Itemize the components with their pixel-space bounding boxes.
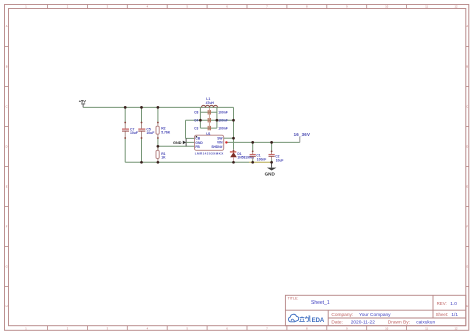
svg-text:1.0: 1.0 [450,301,457,307]
svg-text:E: E [466,185,468,189]
cap bank chain line [208,108,210,130]
diode D1 [230,150,237,163]
junction dots output row [251,141,254,144]
junction dots top rail [124,106,127,109]
svg-text:GND: GND [265,172,276,177]
svg-text:10uF: 10uF [130,131,138,135]
capacitor C5 [138,123,145,139]
wire C4 row [186,119,234,121]
capacitor C4 [208,118,210,122]
svg-text:Your Company: Your Company [359,312,391,318]
ground symbol [265,162,277,176]
svg-text:A: A [466,24,468,28]
svg-text:2020-11-22: 2020-11-22 [351,320,376,326]
svg-text:B: B [466,65,468,69]
svg-text:47uH: 47uH [206,101,215,105]
unconnected pin dot VIN [225,141,227,143]
junction dots bottom rail [140,161,143,164]
svg-text:H: H [6,304,8,308]
wire C5 column [141,107,143,122]
regulator U1 body [195,135,224,150]
wire CB riser [185,120,187,138]
power flag +5V [79,99,87,108]
frame ruler ticks left [5,47,9,287]
svg-text:Sheet_1: Sheet_1 [311,300,330,306]
pin dots R2 [157,122,159,124]
svg-text:1/1: 1/1 [451,312,458,318]
svg-text:GND: GND [173,141,182,145]
svg-text:5.76K: 5.76K [161,131,171,135]
net port GND [173,138,195,146]
svg-text:H: H [466,304,468,308]
pin dot D1 [233,150,235,152]
wire C2 column [271,142,273,151]
junction dot FB divider [157,145,160,148]
resistor R1 [157,146,159,150]
svg-text:+5V: +5V [79,99,87,104]
wire R2/R1 column [157,107,159,122]
wire main right riser [233,107,235,149]
U1 pin names [195,136,223,148]
svg-text:C: C [6,105,8,109]
svg-text:16_36V: 16_36V [294,132,310,137]
net label 16_36V [294,132,310,142]
wire bottom rail yellow segment [249,161,272,163]
svg-text:100nF: 100nF [218,111,228,115]
svg-text:10uF: 10uF [146,131,154,135]
svg-text:100nF: 100nF [257,157,267,161]
svg-text:TITLE:: TITLE: [288,296,299,300]
wire main top rail [83,106,233,108]
wire cap bank left riser [199,107,201,128]
frame ruler ticks right [466,47,469,287]
capacitor C7 [122,123,129,139]
wire bottom rail [125,161,249,163]
EasyEDA logo [289,314,325,324]
svg-text:U1: U1 [206,132,210,136]
capacitor C3 [208,126,210,130]
svg-text:B: B [6,65,8,69]
svg-text:EDA: EDA [312,318,325,324]
svg-text:Sheet:: Sheet: [436,312,449,317]
svg-text:Drawn By:: Drawn By: [388,320,410,326]
wire cap bank right riser [216,107,218,128]
U1 pin1 dot [196,136,198,138]
frame ruler ticks top [48,5,407,9]
svg-text:C8: C8 [194,111,198,115]
svg-text:100nF: 100nF [218,127,228,131]
svg-text:G: G [466,265,468,269]
resistor R2 [157,123,159,127]
capacitor C8 [208,110,210,114]
svg-text:LMR14203XMKX: LMR14203XMKX [195,151,225,155]
svg-text:caixukun: caixukun [416,320,435,326]
svg-text:E: E [6,185,8,189]
svg-text:C: C [466,105,468,109]
svg-text:100nF: 100nF [218,119,228,123]
wire C3 row [200,127,217,129]
svg-text:SHDN#: SHDN# [211,145,222,149]
wire SW pin [224,137,234,139]
svg-text:Date:: Date: [331,320,342,326]
pin dots C7 [124,122,126,124]
svg-text:10uF: 10uF [276,158,284,162]
svg-text:REV:: REV: [437,301,447,306]
svg-text:FB: FB [195,145,200,149]
svg-text:D: D [6,145,8,149]
inductor L1 [202,105,218,107]
svg-text:G: G [6,265,8,269]
svg-text:1K: 1K [161,156,166,160]
wire C8 row [200,111,217,113]
svg-text:Company:: Company: [331,312,353,318]
wire C1 column [252,142,254,151]
junction dot SW row [232,137,235,140]
wire C7 column [124,107,126,122]
junction dots C4 row [199,119,202,122]
svg-text:C3: C3 [194,127,198,131]
svg-text:C4: C4 [194,119,198,123]
frame ruler ticks bottom [48,326,407,331]
wire VIN/output row [227,141,300,143]
svg-text:D: D [466,145,468,149]
svg-text:A: A [6,24,8,28]
capacitor C1 [250,151,256,159]
capacitor C2 [269,151,275,159]
wire FB feedback [158,145,195,147]
pin dots C5 [141,122,143,124]
